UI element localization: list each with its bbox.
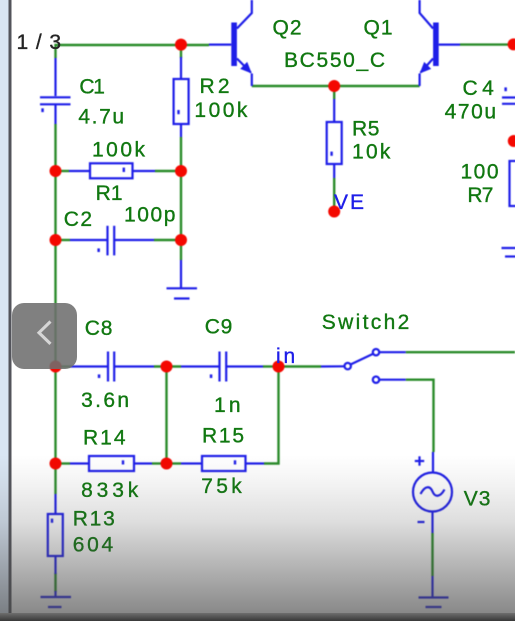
wire C9 to in node — [263, 365, 279, 367]
svg-text:100p: 100p — [124, 204, 175, 227]
wire R1 row — [56, 170, 70, 172]
wire R2 bottom stub — [180, 137, 182, 172]
svg-text:Q1: Q1 — [364, 17, 393, 40]
capacitor C8 — [70, 352, 154, 382]
svg-text:C8: C8 — [85, 317, 113, 340]
svg-text:75k: 75k — [201, 475, 242, 498]
wire switch upper throw out — [406, 351, 515, 353]
wire R2 top stub — [180, 45, 182, 58]
svg-text:604: 604 — [73, 534, 114, 557]
node dot C2 left — [50, 234, 62, 246]
wire C2 row — [56, 239, 71, 241]
node dot R14-R15 — [161, 458, 173, 470]
sidebar strip — [0, 0, 9, 621]
wire C8-C9 link — [154, 365, 181, 367]
node dot VE terminal — [328, 206, 340, 218]
node dot C2 right — [175, 234, 187, 246]
wire R5 top stub — [333, 86, 335, 99]
wire right rail in-R15 — [264, 367, 279, 464]
resistor R15 — [181, 456, 264, 471]
bottom dark bar — [0, 613, 515, 621]
nav back button — [12, 303, 77, 369]
wire R15 row left — [167, 462, 182, 464]
resistor R5 — [327, 99, 342, 178]
wire left rail — [54, 124, 56, 494]
capacitor C1 — [40, 58, 71, 124]
wire emitter bus — [252, 85, 420, 87]
node dot R1 left — [50, 165, 62, 177]
svg-text:3.6n: 3.6n — [81, 389, 129, 412]
svg-text:R14: R14 — [83, 426, 126, 449]
svg-text:V3: V3 — [464, 488, 491, 511]
wire V3 link segment — [431, 533, 433, 576]
wire mid rail — [165, 367, 167, 464]
switch Switch2 — [321, 349, 406, 383]
svg-text:R15: R15 — [202, 424, 244, 447]
capacitor C2 — [70, 226, 154, 256]
svg-text:C9: C9 — [205, 315, 233, 338]
node dot in — [273, 361, 285, 373]
ground (V3 branch) — [419, 576, 449, 607]
wire R5 bottom to VE — [333, 178, 335, 207]
bottom fade overlay — [0, 455, 515, 613]
svg-text:100: 100 — [461, 161, 499, 184]
sidebar divider line — [9, 0, 12, 621]
resistor R14 — [70, 456, 152, 471]
svg-text:10k: 10k — [352, 141, 391, 164]
wire in node to switch — [279, 365, 322, 367]
svg-text:R7: R7 — [467, 184, 493, 207]
node dot R14 left — [50, 458, 62, 470]
node dot C8-C9 — [161, 361, 173, 373]
wire top rail — [56, 45, 210, 58]
wire ground stub right — [180, 240, 182, 260]
wire C8 row left — [56, 365, 71, 367]
svg-text:R2: R2 — [200, 75, 230, 98]
ground (R7 branch, clipped) — [502, 248, 515, 257]
node dot emitter junction — [328, 80, 340, 92]
svg-text:C2: C2 — [64, 208, 92, 231]
wire R13 mid segment — [54, 573, 56, 592]
wire switch lower throw out — [406, 380, 434, 452]
wire right rail R2-C2 — [180, 171, 182, 240]
capacitor C9 — [181, 352, 263, 382]
resistor R2 — [174, 57, 189, 137]
resistor R1 — [69, 163, 155, 178]
node dot right edge top — [508, 38, 515, 50]
node dot C8 left — [50, 361, 62, 373]
node dot top R2 — [175, 39, 187, 51]
wire Q1 base to edge node — [460, 43, 512, 45]
capacitor C4 (clipped at edge) — [502, 87, 515, 103]
transistor Q1 — [420, 0, 460, 86]
node dot right edge mid — [508, 135, 515, 147]
transistor Q2 — [209, 0, 252, 86]
svg-text:470u: 470u — [445, 101, 496, 124]
ground (R2 branch) — [167, 260, 198, 299]
resistor R7 (clipped at edge) — [510, 161, 515, 206]
svg-text:1 / 3: 1 / 3 — [17, 31, 62, 54]
svg-text:R5: R5 — [352, 118, 379, 141]
svg-text:R1: R1 — [96, 182, 123, 205]
svg-text:Q2: Q2 — [273, 17, 302, 40]
ground (R13 branch) — [41, 591, 72, 607]
wire R14 row — [56, 462, 71, 464]
svg-text:4.7u: 4.7u — [78, 106, 124, 129]
voltage source V3 — [413, 452, 452, 533]
svg-text:R13: R13 — [73, 508, 115, 531]
node dot R1 right — [175, 165, 187, 177]
svg-text:C1: C1 — [79, 75, 105, 98]
resistor R13 — [48, 494, 63, 574]
svg-text:BC550_C: BC550_C — [284, 49, 385, 72]
svg-text:in: in — [276, 345, 295, 368]
svg-text:VE: VE — [334, 191, 364, 214]
